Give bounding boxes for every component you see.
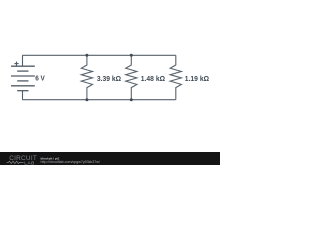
svg-text:6 V: 6 V bbox=[35, 73, 45, 82]
logo zigzag resistor bbox=[7, 161, 24, 163]
svg-text:1.19 kΩ: 1.19 kΩ bbox=[185, 74, 209, 83]
battery plate long 2 bbox=[11, 75, 35, 77]
svg-text:1.48 kΩ: 1.48 kΩ bbox=[141, 74, 165, 83]
battery plate short 2 bbox=[17, 80, 28, 82]
svg-text:http://circuitlab.com/cpgw7y53: http://circuitlab.com/cpgw7y53kk37w/ bbox=[41, 160, 100, 164]
battery plate long 1 bbox=[11, 65, 35, 67]
junction dot R2 bottom bbox=[130, 98, 133, 101]
battery plate long 3 bbox=[11, 85, 35, 87]
resistor R2 bbox=[126, 55, 137, 99]
junction dot R1 bottom bbox=[85, 98, 88, 101]
battery plate short 1 bbox=[17, 70, 28, 72]
svg-text:3.39 kΩ: 3.39 kΩ bbox=[97, 74, 121, 83]
wire top rail bbox=[22, 54, 176, 56]
junction dot R2 top bbox=[130, 54, 133, 57]
junction dot R1 top bbox=[85, 54, 88, 57]
footer black bar bbox=[0, 152, 220, 165]
resistor R1 bbox=[81, 55, 92, 99]
battery top lead bbox=[22, 55, 24, 66]
resistor R3 bbox=[170, 55, 181, 99]
battery V1 (6 V) bbox=[11, 55, 35, 99]
battery bottom lead bbox=[22, 91, 24, 100]
battery plus sign bbox=[14, 62, 18, 66]
svg-text:LAB: LAB bbox=[24, 160, 35, 165]
wire bottom rail bbox=[22, 99, 176, 101]
battery plate short 3 bbox=[17, 90, 28, 92]
